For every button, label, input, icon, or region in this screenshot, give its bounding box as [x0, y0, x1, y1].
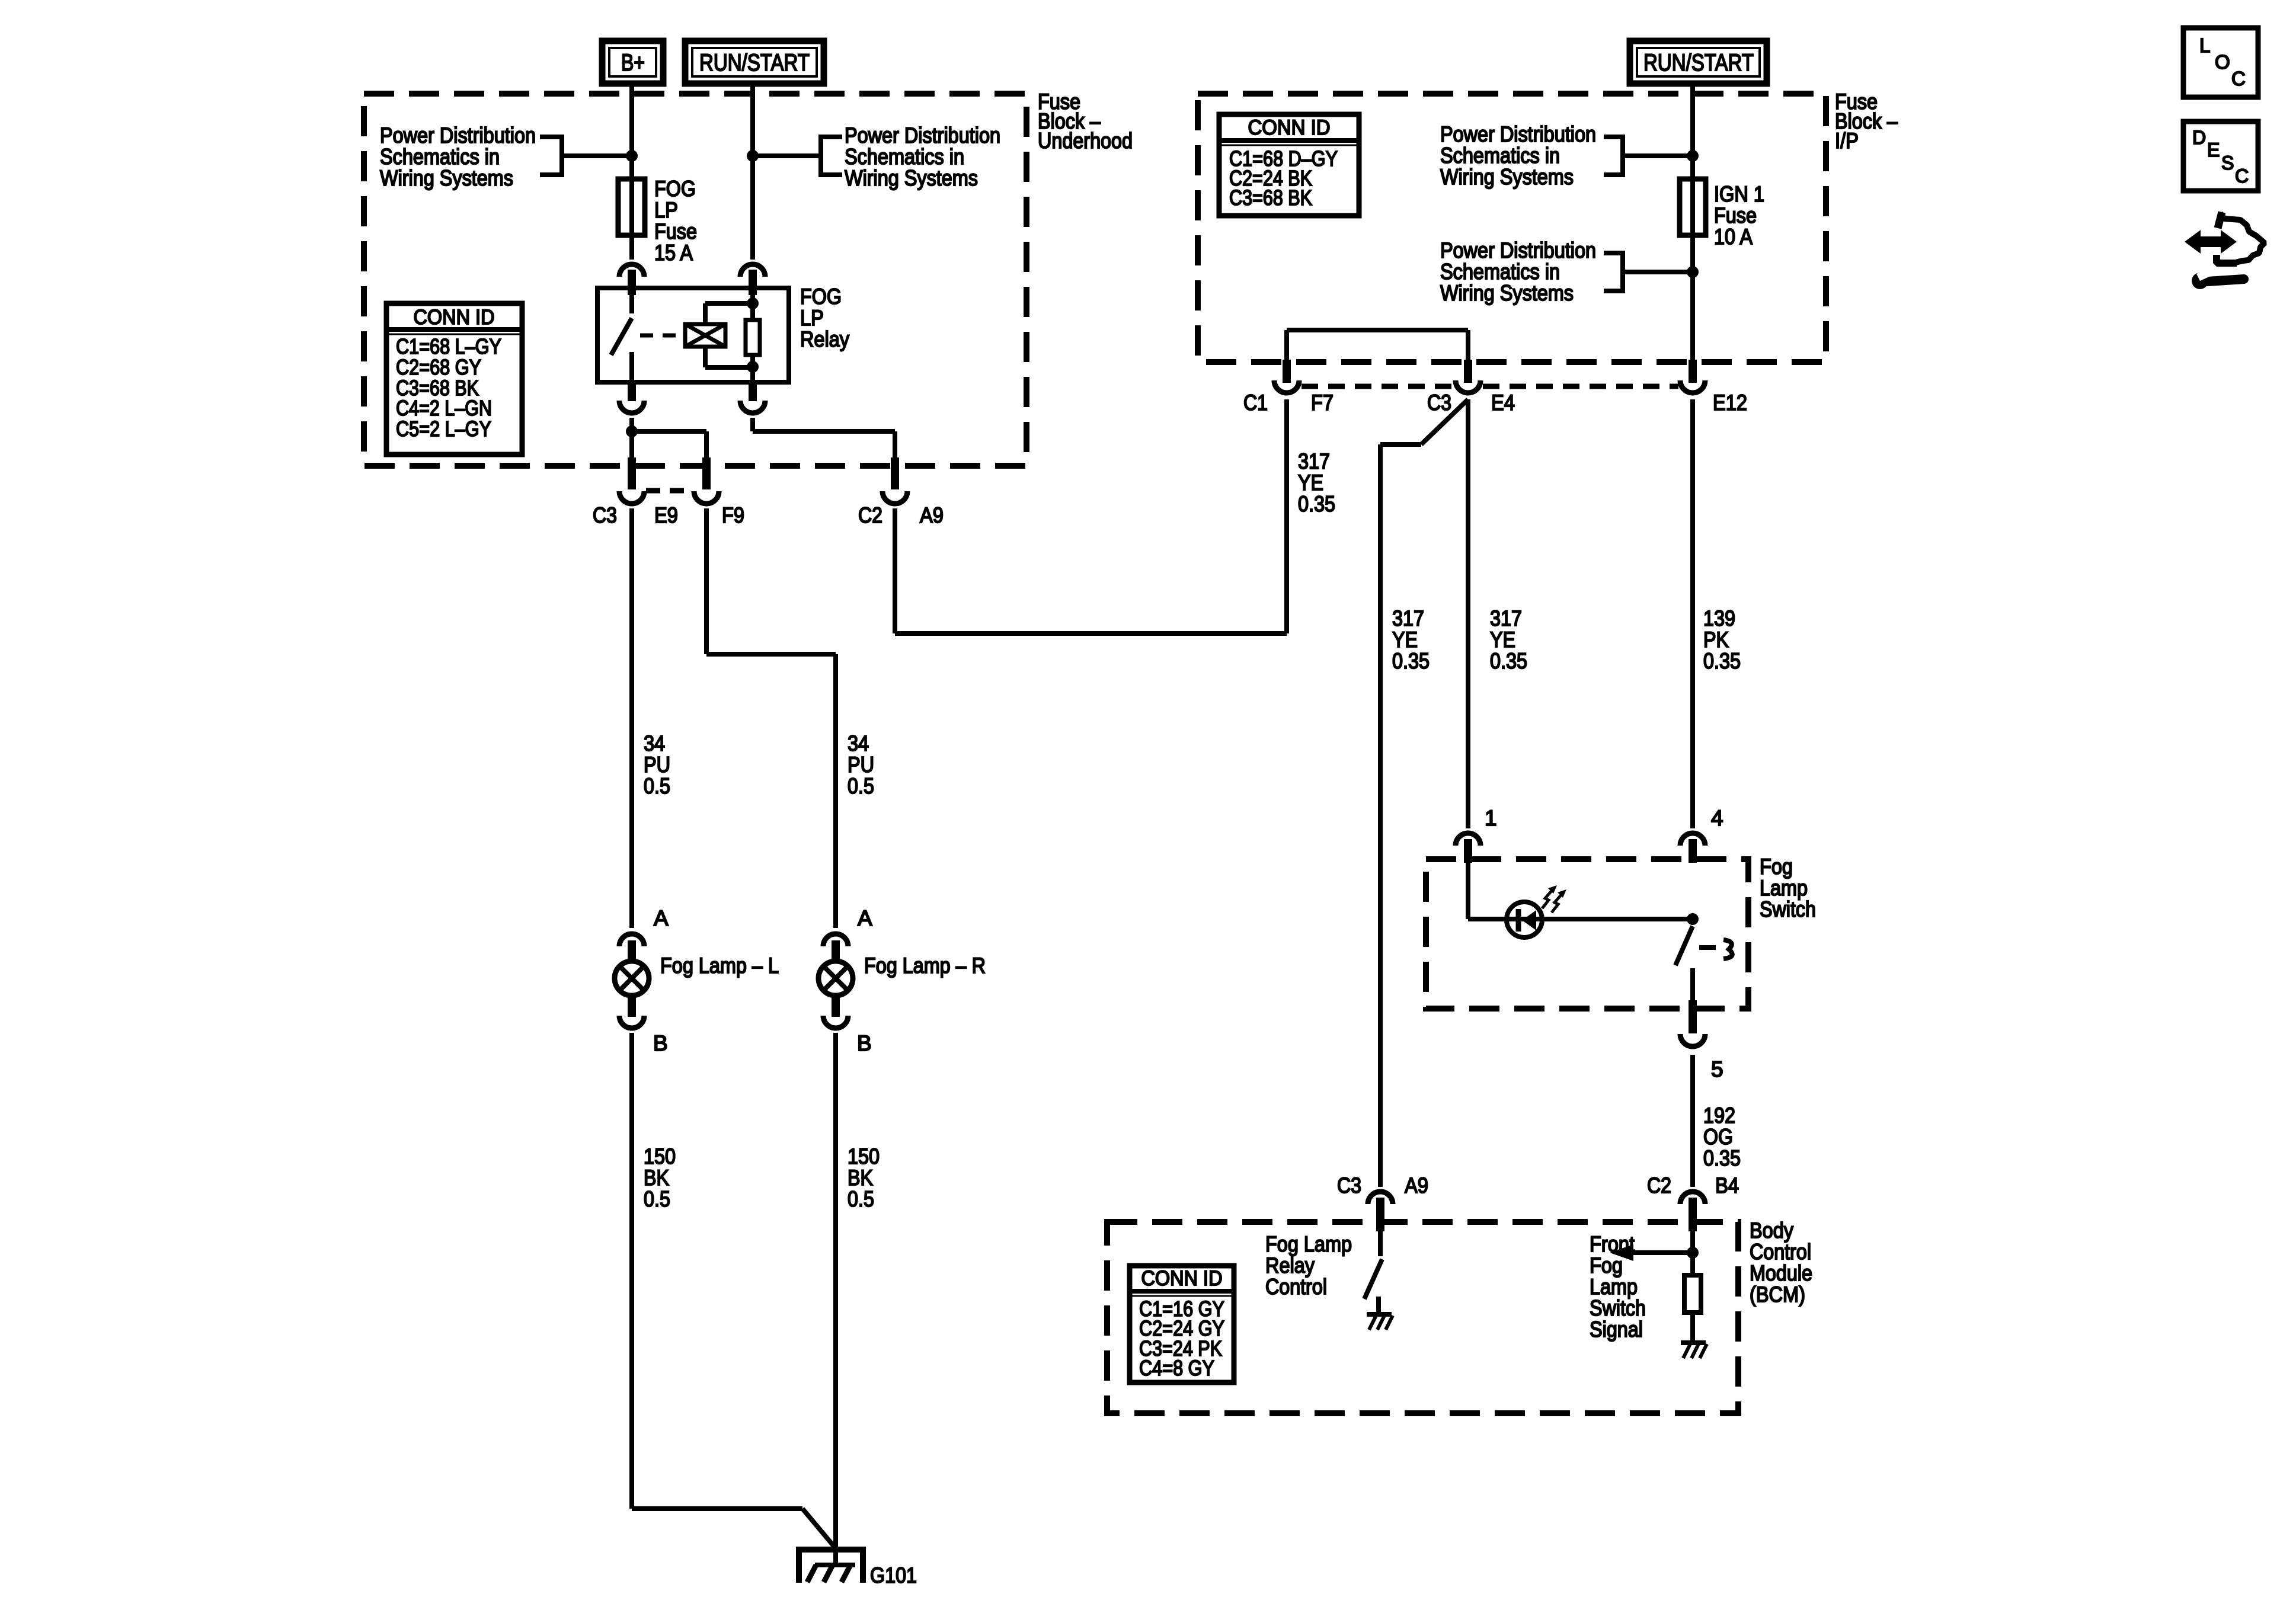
indicator LED in switch [1507, 902, 1542, 937]
note Power Distribution Schematics (RUN/START underhood) [755, 123, 1000, 190]
wire RUN/START feed (underhood) [750, 87, 755, 260]
svg-text:0.35: 0.35 [1703, 649, 1741, 673]
connector C1 F7 terminal [1274, 360, 1299, 393]
svg-text:0.5: 0.5 [644, 774, 670, 798]
fuse block internal bus loop [1287, 330, 1468, 362]
svg-text:Power Distribution: Power Distribution [1440, 122, 1596, 146]
svg-text:15 A: 15 A [654, 241, 693, 265]
label Fog Lamp Relay Control [1265, 1232, 1352, 1299]
wire 192 OG to BCM B4 [1690, 1055, 1695, 1187]
svg-text:Fuse: Fuse [654, 219, 697, 244]
svg-text:317: 317 [1298, 449, 1330, 473]
svg-text:Schematics in: Schematics in [1440, 143, 1560, 168]
switch detent dashed link [1699, 945, 1716, 950]
svg-text:YE: YE [1490, 628, 1515, 652]
svg-text:10 A: 10 A [1714, 225, 1753, 249]
svg-text:0.5: 0.5 [644, 1187, 670, 1211]
svg-text:G101: G101 [870, 1563, 917, 1587]
BCM internal ground [1681, 1343, 1707, 1358]
legend icon DESC [2183, 121, 2258, 191]
svg-text:Wiring Systems: Wiring Systems [1440, 281, 1574, 305]
svg-text:YE: YE [1392, 628, 1418, 652]
label Front Fog Lamp Switch Signal [1590, 1232, 1646, 1342]
relay resistor [746, 288, 760, 382]
wire label 150 BK 0.5 (left) [644, 1144, 676, 1211]
lamp Fog Lamp - L [615, 953, 779, 996]
svg-text:FOG: FOG [800, 284, 842, 309]
fuse block underhood dashed box [364, 94, 1027, 466]
svg-text:139: 139 [1703, 606, 1735, 630]
wire fuse to relay pin [629, 235, 634, 260]
svg-text:Underhood: Underhood [1038, 129, 1133, 153]
junction BCM input [1687, 1247, 1699, 1259]
svg-text:Fog Lamp – R: Fog Lamp – R [864, 953, 986, 978]
svg-text:PU: PU [848, 753, 874, 777]
wire F7 to A9 junction (317 YE) [1284, 399, 1289, 633]
svg-text:O: O [2215, 51, 2230, 73]
svg-text:4: 4 [1711, 806, 1723, 830]
wire A9 to F7 (317 YE) [895, 508, 1287, 633]
svg-text:YE: YE [1298, 470, 1323, 495]
wire E4 to switch pin 1 (317 YE) [1466, 399, 1470, 828]
connector E12 terminal [1680, 360, 1705, 393]
relay actuation dashed link [640, 334, 683, 338]
svg-text:D: D [2192, 127, 2206, 148]
wire B+ feed [629, 87, 634, 179]
svg-text:F7: F7 [1311, 391, 1334, 415]
label Fuse Block - Underhood [1038, 89, 1133, 153]
svg-text:LP: LP [654, 198, 678, 222]
svg-text:C: C [2231, 68, 2246, 89]
wire label 139 PK 0.35 [1703, 606, 1741, 673]
relay coil junction bottom [747, 361, 759, 373]
junction B+ / power distribution tap [626, 150, 638, 162]
svg-text:Relay: Relay [1265, 1253, 1315, 1278]
switch pin 4 terminal [1680, 806, 1723, 863]
svg-text:OG: OG [1703, 1125, 1733, 1149]
svg-text:CONN ID: CONN ID [1248, 116, 1331, 139]
connector id table (I/P fuse block) [1219, 114, 1359, 216]
svg-text:C: C [2235, 165, 2249, 187]
svg-text:C3: C3 [593, 503, 617, 527]
svg-text:0.35: 0.35 [1490, 649, 1527, 673]
connector link E9-F9 dashed [646, 488, 692, 494]
switch pin 1 terminal [1456, 806, 1497, 863]
svg-text:0.5: 0.5 [848, 774, 874, 798]
svg-text:CONN ID: CONN ID [1141, 1267, 1223, 1290]
svg-text:C4=8 GY: C4=8 GY [1139, 1356, 1214, 1380]
connector id table (underhood fuse block) [386, 303, 522, 454]
junction RUN/START / power distribution tap [747, 150, 759, 162]
legend icon LOC [2183, 28, 2258, 97]
switch detent bracket [1723, 940, 1732, 959]
connector C2 A9 terminal [882, 457, 907, 504]
wire B4 into BCM [1690, 1231, 1695, 1275]
connector F9 terminal [694, 457, 719, 504]
wire switch pin1 to indicator [1468, 863, 1508, 919]
svg-text:BK: BK [848, 1166, 873, 1190]
svg-text:B: B [857, 1031, 872, 1055]
svg-text:0.5: 0.5 [848, 1187, 874, 1211]
svg-text:A: A [858, 906, 872, 930]
svg-text:34: 34 [848, 731, 869, 756]
wire resistor to ground [1690, 1313, 1695, 1342]
junction switch contact [1687, 913, 1699, 925]
connector id table (BCM) [1130, 1266, 1234, 1382]
svg-text:C3=68 BK: C3=68 BK [1229, 185, 1312, 210]
svg-text:Fuse: Fuse [1714, 203, 1757, 228]
svg-text:B+: B+ [621, 50, 645, 76]
relay coil [685, 324, 725, 347]
svg-text:150: 150 [644, 1144, 676, 1169]
connector row dashed link F7-E4 [1302, 384, 1453, 389]
svg-text:Signal: Signal [1590, 1317, 1643, 1342]
svg-text:0.35: 0.35 [1703, 1146, 1741, 1170]
power feed box RUN/START (I/P) [1630, 41, 1767, 84]
wire through LED [1507, 917, 1542, 921]
junction relay output split [626, 425, 638, 437]
svg-text:A9: A9 [920, 503, 944, 527]
svg-text:CONN ID: CONN ID [414, 306, 495, 329]
BCM relay driver switch [1364, 1231, 1382, 1314]
svg-text:0.35: 0.35 [1298, 492, 1335, 516]
svg-text:C3: C3 [1427, 391, 1451, 415]
note Power Distribution Schematics (I/P bottom) [1440, 238, 1690, 305]
svg-text:Lamp: Lamp [1590, 1275, 1638, 1299]
wire E4 branch to BCM A9 (317 YE) [1380, 399, 1468, 1187]
svg-text:192: 192 [1703, 1103, 1735, 1128]
fuse IGN 1 10 A [1680, 179, 1764, 249]
svg-text:Switch: Switch [1590, 1296, 1646, 1320]
relay output pin left [619, 382, 644, 413]
svg-text:Fog Lamp – L: Fog Lamp – L [660, 953, 779, 978]
svg-text:F9: F9 [722, 503, 744, 527]
wire 150 BK lamp R to ground [833, 1033, 838, 1565]
relay FOG LP Relay K1 [597, 284, 849, 382]
wire label 317 YE 0.35 (branch) [1392, 606, 1430, 673]
note Power Distribution Schematics (B+ feed) [380, 123, 628, 190]
power feed box RUN/START (underhood) [685, 41, 824, 84]
connector C3 E9 terminal [619, 457, 644, 504]
junction power distribution tap 1 [1687, 150, 1699, 162]
wire E12 to switch pin 4 (139 PK) [1690, 399, 1695, 828]
relay switch contact [611, 288, 632, 382]
label Fog Lamp Switch [1760, 854, 1816, 921]
svg-text:Schematics in: Schematics in [380, 145, 500, 169]
connector terminal into relay (right) [740, 264, 765, 295]
svg-text:I/P: I/P [1835, 129, 1859, 153]
relay output pin right [740, 382, 765, 413]
svg-text:IGN 1: IGN 1 [1714, 182, 1764, 206]
svg-text:Switch: Switch [1760, 897, 1816, 921]
connector row dashed link E4-E12 [1483, 384, 1678, 389]
wire label 34 PU 0.5 (right) [848, 731, 874, 798]
power feed box B+ [602, 41, 663, 84]
fuse block I/P dashed box [1198, 94, 1826, 362]
svg-text:C3: C3 [1337, 1173, 1361, 1198]
connector C3 E4 terminal [1456, 360, 1480, 393]
wire 34 PU to Fog Lamp R [706, 508, 836, 928]
svg-text:E12: E12 [1713, 391, 1747, 415]
BCM switch signal input arrow [1610, 1244, 1693, 1261]
svg-text:Wiring Systems: Wiring Systems [380, 166, 513, 190]
svg-text:BK: BK [644, 1166, 669, 1190]
relay coil loop wiring [705, 303, 753, 367]
BCM pull resistor [1684, 1275, 1701, 1313]
svg-text:Power Distribution: Power Distribution [1440, 238, 1596, 263]
fog lamp left pin A [619, 906, 669, 960]
svg-text:Wiring Systems: Wiring Systems [845, 166, 978, 190]
fog lamp right pin B [823, 996, 872, 1055]
wire label 150 BK 0.5 (right) [848, 1144, 880, 1211]
svg-text:1: 1 [1485, 806, 1497, 830]
LED emission arrows [1542, 885, 1566, 913]
note Power Distribution Schematics (I/P top) [1440, 122, 1690, 189]
label Body Control Module (BCM) [1750, 1218, 1812, 1307]
svg-text:S: S [2221, 152, 2234, 174]
fuse FOG LP 15 A [618, 177, 697, 265]
connector C2 B4 terminal (BCM) [1680, 1192, 1705, 1231]
wire label 34 PU 0.5 (left) [644, 731, 670, 798]
svg-text:Wiring Systems: Wiring Systems [1440, 165, 1574, 189]
svg-text:B: B [653, 1031, 668, 1055]
svg-text:Power Distribution: Power Distribution [845, 123, 1000, 148]
svg-text:Body: Body [1750, 1218, 1793, 1243]
BCM driver ground [1367, 1314, 1393, 1330]
fog lamp right pin A [823, 906, 872, 960]
svg-text:E9: E9 [654, 503, 678, 527]
wire indicator to switch contact [1541, 917, 1693, 921]
svg-text:(BCM): (BCM) [1750, 1282, 1805, 1307]
svg-text:E4: E4 [1491, 391, 1515, 415]
svg-text:Fog Lamp: Fog Lamp [1265, 1232, 1352, 1256]
svg-text:Lamp: Lamp [1760, 876, 1808, 900]
switch blade and contact [1675, 926, 1693, 1001]
svg-text:RUN/START: RUN/START [1643, 50, 1754, 76]
switch pin 5 terminal [1680, 1000, 1723, 1081]
svg-text:Control: Control [1265, 1275, 1327, 1299]
svg-text:C5=2 L–GY: C5=2 L–GY [396, 417, 491, 441]
wire label 192 OG 0.35 [1703, 1103, 1741, 1170]
svg-text:317: 317 [1490, 606, 1522, 630]
wire label 317 YE 0.35 (F7) [1298, 449, 1335, 516]
wire 34 PU to Fog Lamp L [629, 508, 634, 928]
svg-text:LP: LP [800, 306, 824, 330]
svg-text:Schematics in: Schematics in [1440, 260, 1560, 284]
fog lamp switch dashed box [1426, 859, 1748, 1009]
svg-text:Schematics in: Schematics in [845, 145, 964, 169]
fog lamp left pin B [619, 996, 668, 1055]
svg-text:FOG: FOG [654, 177, 696, 201]
svg-text:C2: C2 [1647, 1173, 1671, 1198]
svg-text:C2: C2 [858, 503, 882, 527]
svg-text:Power Distribution: Power Distribution [380, 123, 536, 148]
svg-text:C1: C1 [1243, 391, 1268, 415]
svg-text:Fog: Fog [1760, 854, 1793, 879]
svg-text:A: A [654, 906, 669, 930]
svg-text:Module: Module [1750, 1261, 1812, 1285]
wire IGN1 fuse output [1690, 235, 1695, 364]
svg-text:Control: Control [1750, 1240, 1811, 1264]
relay coil junction top [747, 297, 759, 309]
svg-text:Fog: Fog [1590, 1253, 1623, 1278]
svg-text:5: 5 [1711, 1057, 1723, 1081]
svg-text:34: 34 [644, 731, 665, 756]
svg-text:E: E [2207, 139, 2220, 161]
svg-text:RUN/START: RUN/START [699, 50, 810, 76]
wire 150 BK lamp L to ground [632, 1033, 836, 1548]
svg-text:0.35: 0.35 [1392, 649, 1430, 673]
junction power distribution tap 2 [1687, 266, 1699, 278]
svg-text:Relay: Relay [800, 327, 849, 351]
wire label 317 YE 0.35 (switch feed) [1490, 606, 1527, 673]
ground G101 [799, 1550, 917, 1587]
svg-text:150: 150 [848, 1144, 880, 1169]
body control module dashed box [1107, 1222, 1738, 1413]
svg-text:L: L [2199, 34, 2210, 56]
label Fuse Block - I/P [1835, 89, 1898, 153]
svg-text:PU: PU [644, 753, 670, 777]
svg-text:B4: B4 [1715, 1173, 1739, 1198]
legend icon vehicle service (arrow, silhouette, wrench) [2185, 212, 2265, 289]
wire RUN/START feed (I/P) [1690, 87, 1695, 179]
wire relay output to E9/F9 split [632, 418, 706, 462]
lamp Fog Lamp - R [818, 953, 986, 996]
svg-text:PK: PK [1703, 628, 1729, 652]
svg-text:317: 317 [1392, 606, 1424, 630]
wire relay coil output to A9 [753, 418, 895, 462]
svg-text:A9: A9 [1405, 1173, 1428, 1198]
connector terminal into relay (left) [619, 264, 644, 295]
connector C3 A9 terminal (BCM) [1368, 1192, 1393, 1231]
